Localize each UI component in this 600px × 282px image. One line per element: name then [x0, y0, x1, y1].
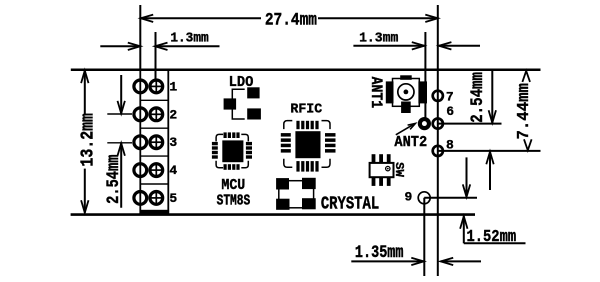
svg-text:6: 6 — [446, 104, 454, 119]
svg-text:CRYSTAL: CRYSTAL — [321, 194, 379, 214]
svg-text:STM8S: STM8S — [217, 192, 251, 209]
svg-text:13.2mm: 13.2mm — [77, 113, 98, 167]
svg-text:1.3mm: 1.3mm — [170, 30, 208, 45]
svg-text:8: 8 — [446, 138, 454, 153]
svg-text:1.35mm: 1.35mm — [355, 242, 404, 262]
svg-text:2.54mm: 2.54mm — [104, 155, 124, 204]
svg-text:7: 7 — [446, 90, 454, 105]
svg-text:4: 4 — [169, 163, 177, 178]
svg-text:5: 5 — [169, 191, 177, 206]
svg-text:2.54mm: 2.54mm — [467, 72, 487, 123]
svg-text:7.44mm: 7.44mm — [515, 83, 534, 140]
svg-text:2: 2 — [169, 107, 177, 122]
svg-text:RFIC: RFIC — [290, 102, 322, 117]
svg-text:SW: SW — [392, 162, 406, 177]
svg-text:27.4mm: 27.4mm — [265, 10, 318, 30]
svg-text:1: 1 — [169, 79, 177, 94]
svg-text:ANT2: ANT2 — [394, 134, 427, 151]
svg-text:1.52mm: 1.52mm — [466, 227, 516, 246]
svg-text:ANT1: ANT1 — [366, 77, 383, 109]
svg-text:3: 3 — [169, 135, 177, 150]
svg-text:1.3mm: 1.3mm — [359, 31, 398, 46]
svg-text:9: 9 — [404, 189, 412, 204]
svg-text:LDO: LDO — [229, 75, 254, 91]
